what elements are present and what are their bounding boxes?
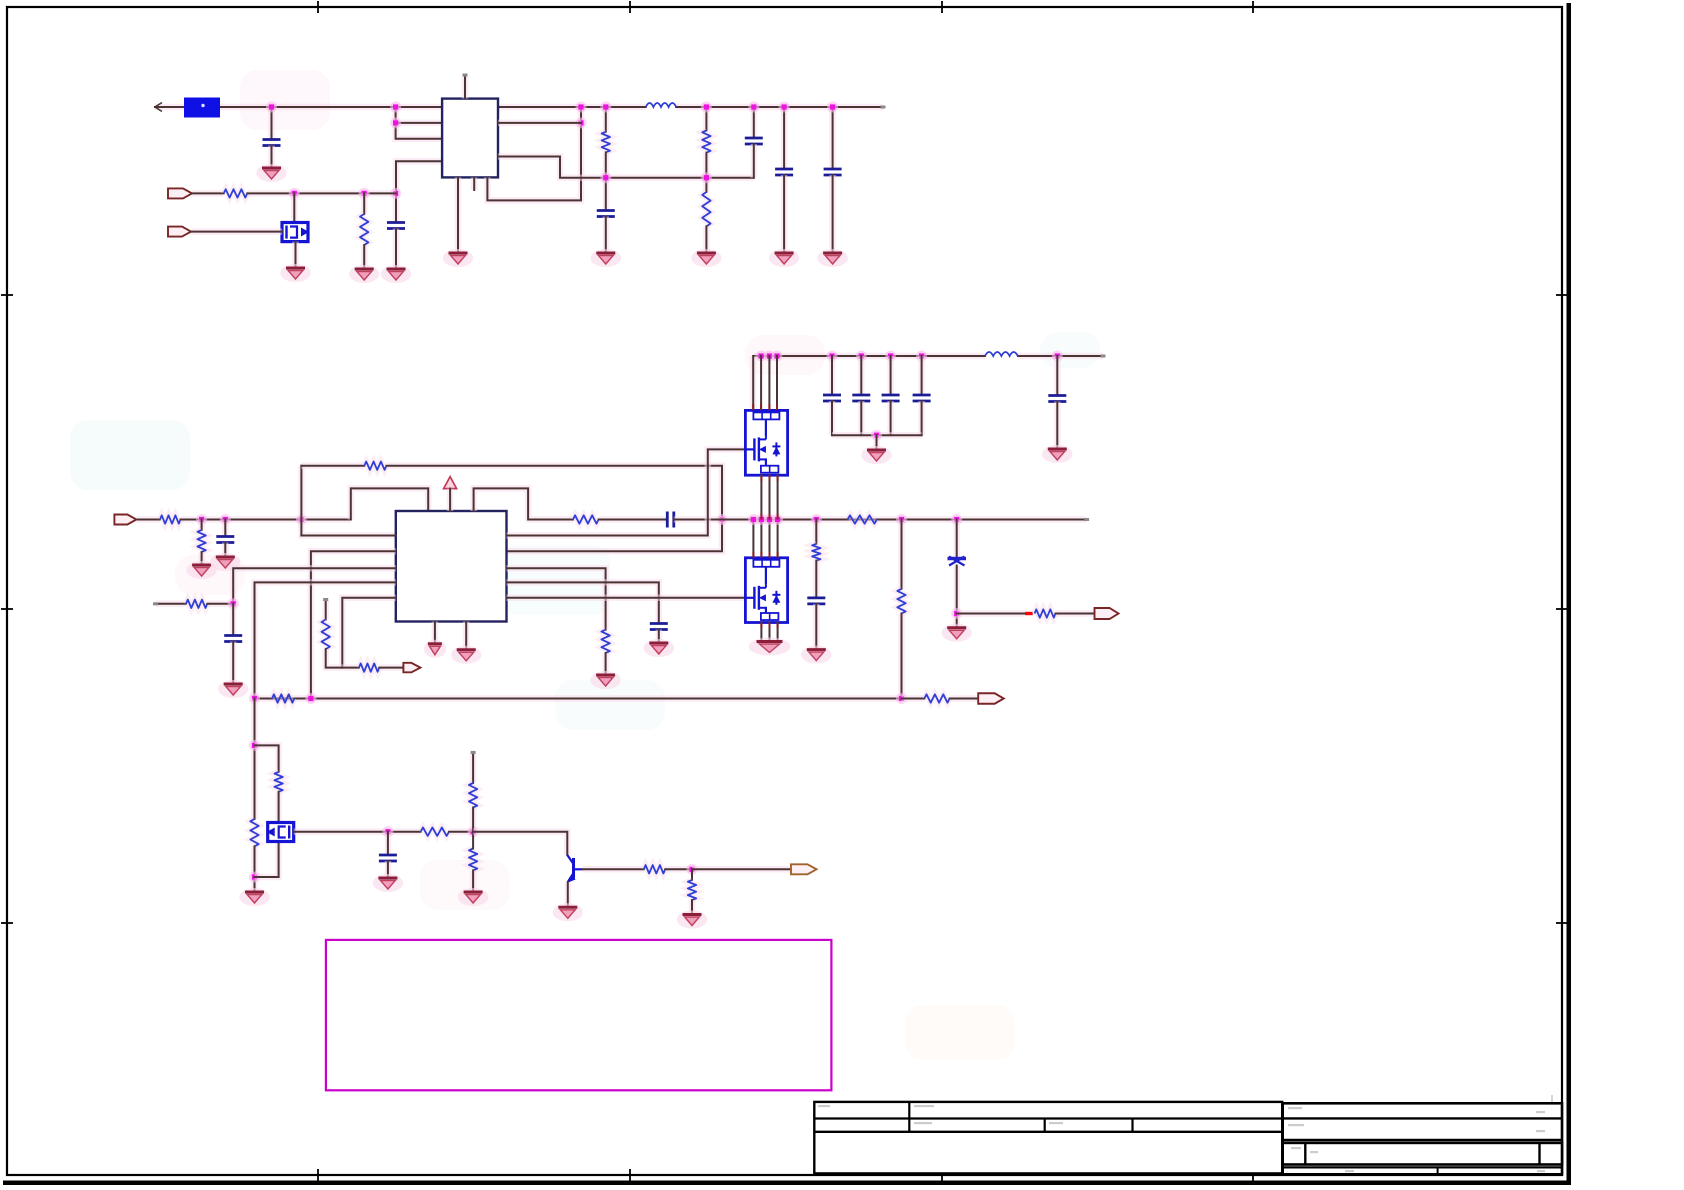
wire U1 top pin bbox=[462, 75, 469, 99]
wire C16 bottom lead bbox=[858, 401, 865, 435]
resistor R18 bbox=[812, 544, 820, 561]
transistor Q1 bbox=[282, 223, 309, 242]
capacitor C8 bbox=[775, 169, 793, 175]
wire bus to Q3 leg2 bbox=[760, 356, 762, 410]
ground under C21 bbox=[373, 874, 403, 892]
wire U2 pin1 left bbox=[301, 535, 395, 537]
wire C6 to ground bbox=[603, 217, 610, 254]
wire R13 to C12 bbox=[599, 516, 668, 523]
wire IC1 pin2 stub bbox=[396, 120, 443, 127]
wire R25 to gnd junction bbox=[251, 846, 258, 892]
wire D1 top lead bbox=[953, 520, 960, 557]
capacitor C4 bbox=[387, 223, 405, 229]
wire Q4 drain leg1 bbox=[752, 520, 754, 558]
wire U1 bottom pin B stub bbox=[471, 177, 478, 190]
wire sense row bbox=[957, 610, 1025, 617]
wire D1 bottom lead bbox=[953, 566, 960, 628]
wire cap bank gnd lead bbox=[873, 435, 880, 450]
wire port3 line bbox=[136, 516, 160, 523]
capacitor C17 bbox=[882, 395, 900, 401]
wire Q4 source leg1 bbox=[760, 623, 762, 642]
resistor R6 bbox=[702, 131, 710, 153]
ground under U1 bbox=[443, 249, 473, 267]
title block bbox=[814, 1095, 1562, 1175]
wire Q4 source leg3 bbox=[777, 623, 779, 642]
ground under C4 bbox=[381, 265, 411, 283]
junction bus/C17 bbox=[885, 351, 896, 362]
capacitor C21 bbox=[379, 855, 397, 861]
mosfet Q4 (low side) bbox=[745, 558, 787, 623]
wire C4 lead bbox=[393, 193, 400, 222]
resistor R11 bbox=[197, 530, 205, 552]
resistor R12 bbox=[364, 462, 386, 470]
ground under R28 bbox=[458, 888, 488, 906]
wire C9 to ground bbox=[829, 175, 836, 253]
wire U2 pin5 left bbox=[342, 598, 396, 668]
ground cap bank bbox=[861, 446, 891, 464]
ground under U2 pin B bbox=[451, 646, 481, 664]
wire C18 top lead bbox=[918, 356, 925, 395]
capacitor C18 bbox=[913, 395, 931, 401]
resistor R25 bbox=[250, 819, 258, 846]
power arrow U2 VCC bbox=[444, 477, 457, 492]
wire Q6 emitter bbox=[565, 882, 572, 907]
resistor R10 bbox=[160, 515, 181, 523]
resistor R27 bbox=[469, 783, 477, 808]
ground under C13 bbox=[218, 680, 248, 698]
wire U2 pin3 right bbox=[507, 568, 606, 630]
resistor R22 bbox=[272, 694, 294, 702]
wire bus to Q3 leg3 bbox=[768, 356, 770, 410]
junction bus/FET leg 3 bbox=[772, 351, 783, 362]
resistor R15 bbox=[322, 620, 330, 650]
junction C11 top bbox=[220, 514, 231, 525]
wire loop top right bbox=[387, 466, 723, 552]
wire R26 to junction bbox=[449, 828, 473, 835]
wire EN divider vertical upper bbox=[396, 107, 443, 139]
resistor R21 bbox=[1035, 609, 1056, 617]
ground under Q1 bbox=[280, 264, 310, 282]
junction SW/D1 bbox=[951, 514, 962, 525]
junction bus/C18 bbox=[916, 351, 927, 362]
resistor R30 bbox=[688, 880, 696, 900]
capacitor C11 bbox=[216, 537, 234, 543]
ground under R17 bbox=[590, 671, 620, 689]
wire R18 lead bbox=[813, 520, 820, 544]
wire loop vertical bbox=[301, 466, 395, 536]
junction feedback loop bbox=[296, 514, 307, 525]
regulator IC U1 bbox=[442, 99, 498, 178]
wire FB bottom line bbox=[255, 695, 902, 702]
capacitor C16 bbox=[852, 395, 870, 401]
junction rail/C8 bbox=[779, 102, 790, 113]
capacitor C12 (series) bbox=[667, 512, 674, 528]
wire R11 gnd lead bbox=[198, 552, 205, 565]
transistor Q6 (BJT) bbox=[567, 855, 582, 883]
capacitor C6 bbox=[597, 211, 615, 217]
ground under C6 bbox=[591, 249, 621, 267]
wire U2 pin5 right (lower gate) bbox=[507, 595, 746, 602]
junction port line / C4 bbox=[390, 188, 401, 199]
capacitor C15 bbox=[823, 395, 841, 401]
wire R11 lead bbox=[198, 520, 205, 531]
wire R24 to Q5 bbox=[275, 792, 282, 823]
inductor L2 bbox=[985, 352, 1018, 356]
open end right of output rail bbox=[881, 106, 886, 109]
U1 top pin end bbox=[463, 74, 468, 77]
wire R20 to FB line bbox=[898, 614, 905, 699]
ground under R30 bbox=[677, 911, 707, 929]
wire R5 top lead bbox=[603, 107, 610, 132]
wire C17 top lead bbox=[887, 356, 894, 395]
diode D1 bbox=[948, 557, 967, 566]
wire R30 lead bbox=[691, 869, 693, 880]
resistor R3 bbox=[224, 189, 248, 197]
ground under D1 bbox=[942, 624, 972, 642]
resistor R14 bbox=[186, 600, 207, 608]
junction bus/C16 bbox=[856, 351, 867, 362]
port FB output bbox=[403, 663, 420, 673]
resistor R23 bbox=[924, 694, 949, 702]
ground under C8 bbox=[769, 249, 799, 267]
wire VIN2 to U2 BST pin bbox=[351, 488, 428, 519]
junction VIN/C2 bbox=[266, 102, 277, 113]
junction bus/C19 bbox=[1052, 351, 1063, 362]
inductor L1 bbox=[646, 103, 676, 107]
ground under C2 bbox=[256, 164, 286, 182]
wire R4 top lead bbox=[361, 193, 368, 214]
junction R4 top bbox=[359, 188, 370, 199]
R27 top tick bbox=[471, 751, 476, 754]
ground under C9 bbox=[817, 249, 847, 267]
resistor R29 bbox=[644, 865, 665, 873]
wire Q5 source branch bbox=[255, 842, 279, 878]
capacitor C9 bbox=[824, 169, 842, 175]
wire R28 leads bbox=[472, 832, 474, 849]
wire R3 to junctions bbox=[247, 190, 395, 197]
wire R15 stub bbox=[322, 600, 329, 620]
wire C9 top lead bbox=[829, 107, 836, 169]
junction bias top bbox=[249, 740, 260, 751]
wire FB to R23 bbox=[902, 695, 925, 702]
port BIAS output bbox=[791, 864, 817, 874]
wire Q3 source leg2 bbox=[769, 475, 771, 519]
wire C20 gnd lead bbox=[813, 604, 820, 650]
wire C13 lead bbox=[230, 604, 237, 636]
junction D1/sense bbox=[951, 608, 962, 619]
wire R27 to junction bbox=[470, 808, 477, 832]
junction Q1 drain bbox=[289, 188, 300, 199]
wire cap bank bottom bus bbox=[832, 432, 922, 439]
wire U1 right pin3 loop bbox=[498, 157, 754, 178]
wire U2 pin4 left bbox=[255, 582, 396, 698]
open end SW rail bbox=[1084, 518, 1089, 521]
ground under R7 bbox=[691, 249, 721, 267]
wire U2 gnd pin B bbox=[463, 622, 470, 650]
wire U1 bottom pin C loop bbox=[487, 107, 581, 200]
ground under Q4 bbox=[749, 638, 791, 656]
wire Q3 source leg3 bbox=[777, 475, 779, 519]
capacitor C7 bbox=[745, 138, 763, 144]
junction SW leg x753 bbox=[748, 514, 759, 525]
junction FB/R20 bbox=[896, 693, 907, 704]
wire R23 to port bbox=[950, 695, 979, 702]
wire R16 to port bbox=[379, 664, 403, 671]
wire C19 top lead bbox=[1054, 356, 1061, 396]
ground under C20 bbox=[801, 646, 831, 664]
R14 dangling end bbox=[153, 602, 158, 605]
junction SW leg x777 bbox=[772, 514, 783, 525]
wire Q1 drain bbox=[291, 193, 298, 222]
wire bus to Q3 leg4 bbox=[776, 356, 778, 410]
wire top main VIN rail bbox=[155, 104, 184, 111]
wire C11 lead bbox=[222, 520, 229, 537]
junction SW leg x769 bbox=[764, 514, 775, 525]
resistor R24 bbox=[274, 772, 282, 792]
resistor R17 bbox=[601, 630, 609, 653]
FET leg pin ends bbox=[753, 404, 777, 628]
junction pin loop mid bbox=[576, 117, 587, 128]
junction rail/R6 bbox=[701, 102, 712, 113]
junction SW/R18 bbox=[811, 514, 822, 525]
resistor R19 bbox=[848, 515, 877, 523]
junction bus/C15 bbox=[827, 351, 838, 362]
wire U1 bottom pin A bbox=[455, 177, 462, 253]
junction rail/R5 bbox=[600, 102, 611, 113]
capacitor C19 bbox=[1048, 396, 1066, 402]
wire R18 to C20 bbox=[813, 561, 820, 598]
resistor R20 bbox=[897, 589, 905, 614]
wire C21 gnd lead bbox=[385, 861, 392, 878]
junction FB/pin4 vert bbox=[249, 693, 260, 704]
capacitor C2 bbox=[263, 140, 281, 146]
junction bus/FET leg 1 bbox=[756, 351, 767, 362]
ground under C14 bbox=[644, 639, 674, 657]
wire top main after fuse bbox=[220, 104, 442, 111]
capacitor C14 bbox=[650, 624, 668, 630]
wire top bus a bbox=[753, 353, 985, 360]
wire C13 gnd lead bbox=[230, 642, 237, 685]
wire top bus b bbox=[1018, 353, 1103, 360]
buck controller U2 bbox=[396, 511, 507, 622]
wire junction to Q6 collector bbox=[473, 832, 567, 855]
wire Q4 drain leg3 bbox=[769, 520, 771, 558]
resistor R16 bbox=[359, 663, 379, 671]
resistor R5 bbox=[602, 132, 610, 153]
wire R6 top lead bbox=[703, 107, 710, 131]
wire Q5 gate row bbox=[294, 828, 421, 835]
junction feedback/R6R7 bbox=[701, 172, 712, 183]
wire R28 gnd lead bbox=[470, 870, 477, 892]
wire R10 to corner bbox=[181, 516, 351, 523]
resistor R7 bbox=[702, 192, 710, 226]
wire U2 pin2 left bbox=[311, 551, 396, 698]
ground under Q6 bbox=[553, 903, 583, 921]
wire C15 top lead bbox=[829, 356, 836, 395]
wire R7 to ground bbox=[703, 226, 710, 253]
border shadow right bbox=[1567, 3, 1572, 1185]
ground under R4 bbox=[349, 265, 379, 283]
wire bus to Q3 leg1 bbox=[750, 356, 757, 410]
wire Q1 source to ground bbox=[292, 242, 299, 268]
wire R29 to junction bbox=[665, 866, 692, 873]
wire port1 to R3 bbox=[192, 190, 224, 197]
resistor R13 bbox=[573, 515, 599, 523]
wire bias branch to Q5 drain bbox=[255, 745, 279, 772]
border shadow bottom bbox=[3, 1181, 1571, 1186]
junction output rail / loop bbox=[576, 102, 587, 113]
wire U2 gnd pin A bbox=[432, 622, 439, 644]
wire U2 pin1 right gate loop bbox=[507, 449, 746, 535]
junction R11 top bbox=[196, 514, 207, 525]
highlight red segment bbox=[1025, 612, 1033, 615]
arrow end left of VIN rail bbox=[155, 103, 162, 112]
wire C8 top lead bbox=[781, 107, 788, 169]
wire top main output rail b bbox=[676, 104, 883, 111]
wire C15 bottom lead bbox=[829, 401, 836, 435]
wire R27 stub bbox=[470, 752, 477, 783]
junction rail/C9 bbox=[827, 102, 838, 113]
wire R6 to R7 bbox=[703, 153, 710, 192]
junction pin3/R14/C13 bbox=[228, 598, 239, 609]
junction feedback mid bbox=[600, 172, 611, 183]
note box (magenta) bbox=[326, 940, 832, 1090]
wire top main output rail a bbox=[498, 104, 646, 111]
wire C7 top lead bbox=[751, 107, 758, 138]
wire C18 bottom lead bbox=[918, 401, 925, 435]
junction main/pin bus bbox=[390, 102, 401, 113]
wire C21 lead bbox=[385, 832, 392, 855]
wire IC1 pin4 L-connection bbox=[396, 161, 442, 193]
resistor R28 bbox=[469, 849, 477, 871]
open end top bus bbox=[1101, 355, 1106, 358]
resistor R26 bbox=[421, 828, 449, 836]
wire C17 bottom lead bbox=[887, 401, 894, 435]
wire C19 gnd lead bbox=[1054, 402, 1061, 450]
wire U2 pin4 right bbox=[507, 582, 659, 623]
wire C8 to ground bbox=[781, 175, 788, 253]
wire R5 to C6 bbox=[603, 152, 610, 210]
ground under U2 pin A bbox=[424, 640, 446, 658]
wire port2 to Q1 gate bbox=[191, 228, 282, 235]
wire C14 gnd lead bbox=[656, 630, 663, 644]
wire C7 bottom lead bbox=[751, 144, 758, 178]
wire Q6 base row bbox=[582, 866, 644, 873]
junction loop/SW bbox=[717, 514, 728, 525]
junction FB/pin2 vert bbox=[305, 693, 316, 704]
wire R17 gnd lead bbox=[602, 653, 609, 675]
junction R27/R28 bbox=[468, 826, 479, 837]
resistor R4 bbox=[360, 214, 368, 245]
port FB2 output bbox=[978, 693, 1004, 704]
wire to port6 bbox=[692, 866, 791, 873]
junction base/R30 bbox=[687, 864, 698, 875]
ground under R11 bbox=[186, 561, 216, 579]
junction SW/R20 bbox=[896, 514, 907, 525]
capacitor C20 bbox=[807, 598, 825, 604]
junction bias bottom bbox=[249, 872, 260, 883]
wire U2 VCC pin bbox=[447, 489, 454, 511]
wire Q4 drain leg2 bbox=[760, 520, 762, 558]
wire C16 top lead bbox=[858, 356, 865, 395]
wire U2 top right pin loop bbox=[474, 488, 573, 519]
wire Q4 drain leg4 bbox=[777, 520, 779, 558]
wire loop top left bbox=[301, 462, 364, 469]
transistor Q5 bbox=[267, 823, 294, 842]
wire R30 gnd lead bbox=[689, 900, 696, 914]
ground under C11 bbox=[210, 553, 240, 571]
wire SW rail bbox=[674, 516, 1087, 523]
wire R20 lead bbox=[898, 520, 905, 589]
wire bias vertical bbox=[251, 699, 258, 820]
junction rail/C7 bbox=[748, 102, 759, 113]
ground bias bbox=[239, 888, 269, 906]
junction bus/FET leg 2 bbox=[764, 351, 775, 362]
fuse/bead F1 (blue box) bbox=[184, 98, 220, 118]
wire R21 to port bbox=[1056, 610, 1095, 617]
junction cap bank gnd bbox=[871, 430, 882, 441]
ground under C19 bbox=[1042, 445, 1072, 463]
wire Q4 source leg2 bbox=[769, 623, 771, 642]
junction gate/C21 bbox=[382, 826, 393, 837]
port EN input bbox=[168, 188, 192, 198]
wire R15 bottom bbox=[326, 649, 343, 668]
capacitor C13 bbox=[224, 636, 242, 642]
wire R4 bottom lead bbox=[361, 245, 368, 269]
wire U2 pin3 left bbox=[233, 568, 396, 604]
wire C11 gnd lead bbox=[222, 543, 229, 558]
wire C4 to ground bbox=[393, 229, 400, 270]
wire R14 row bbox=[156, 601, 187, 608]
mosfet Q3 (high side) bbox=[745, 410, 787, 475]
port VIN2 input bbox=[114, 515, 136, 525]
scan tint patches bbox=[70, 70, 1100, 1060]
junction SW leg x761 bbox=[756, 514, 767, 525]
port VSENSE output bbox=[1095, 608, 1119, 619]
wire C2 lower lead bbox=[268, 146, 275, 169]
port CTRL input bbox=[168, 227, 191, 237]
wire U1 right pin2 bbox=[498, 120, 581, 127]
wire C2 upper lead bbox=[268, 107, 275, 140]
wire R14 to junction bbox=[207, 601, 233, 608]
junction pin2 bus bbox=[390, 117, 401, 128]
R15 top tick bbox=[323, 598, 328, 601]
wire Q3 source leg1 bbox=[760, 475, 762, 519]
wire FB to R16 bbox=[342, 664, 359, 671]
